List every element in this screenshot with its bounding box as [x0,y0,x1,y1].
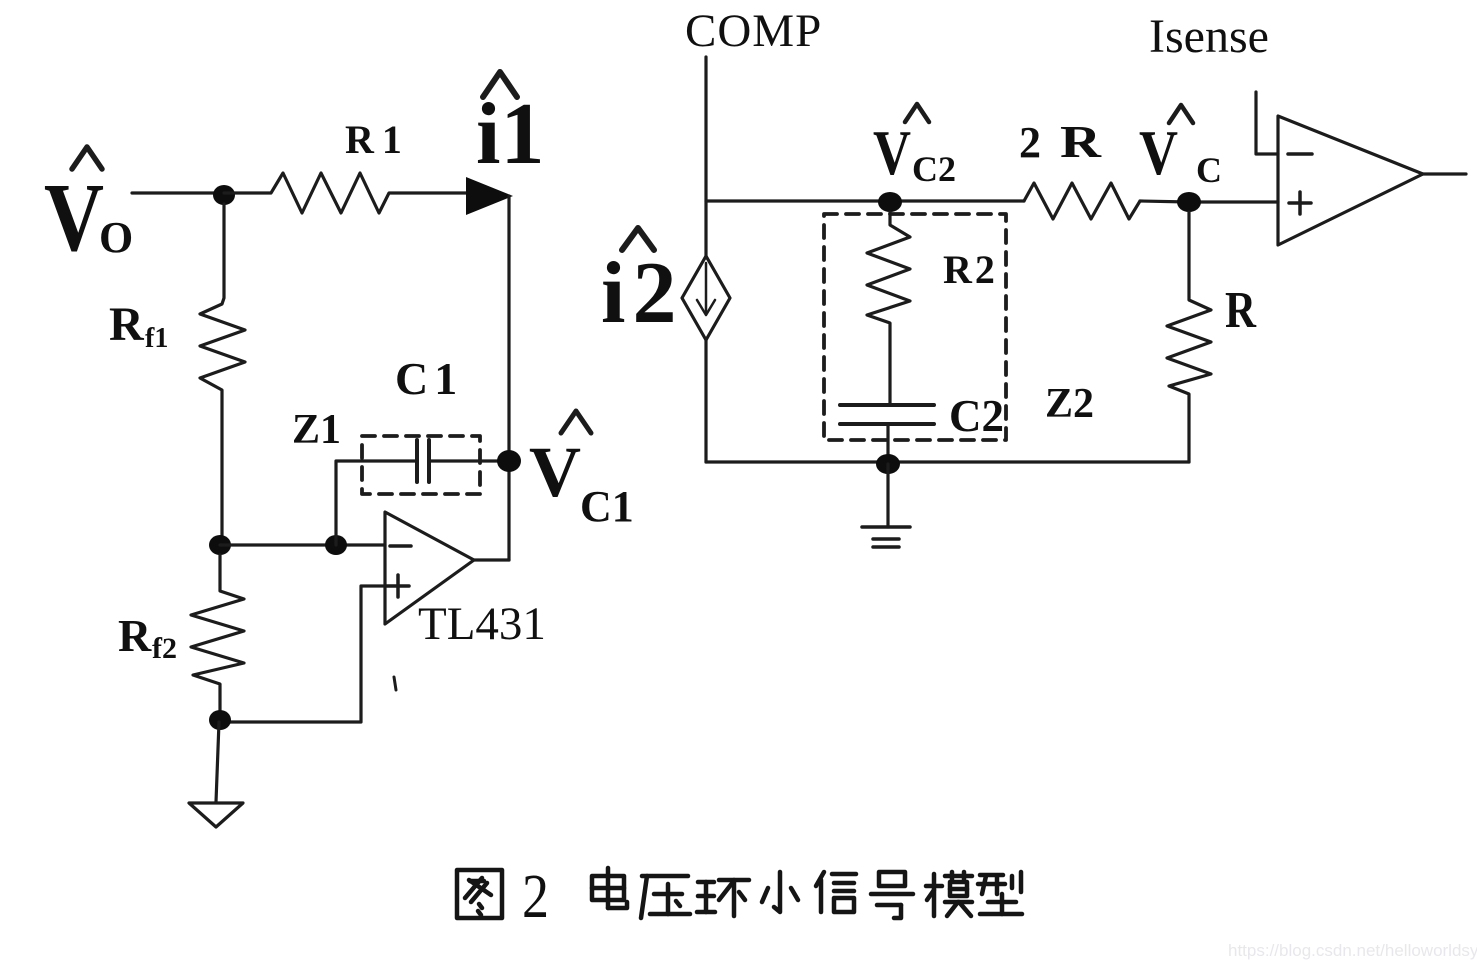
op-amp U1 TL431 [385,512,474,624]
dashed box Z1 [362,436,480,494]
wire U2 output [1423,172,1466,175]
svg-text:i2: i2 [601,245,683,342]
svg-text:Z1: Z1 [292,407,341,453]
node D junction dot [209,710,231,730]
capacitor C2 [840,405,934,424]
wire Vc to opamp [1189,200,1278,203]
label Vc1 [529,432,634,531]
svg-text:i1: i1 [476,86,544,183]
dashed box Z2 [824,214,1006,440]
svg-text:V: V [44,164,104,272]
wire bottom rail [706,460,1189,463]
current source i2 (diamond) [682,256,730,340]
svg-text:https://blog.csdn.net/hellowor: https://blog.csdn.net/helloworldsyf [1228,941,1477,960]
wire Isense input [1256,92,1278,154]
minus sign U2 [1288,152,1312,156]
arrow inside i2 [697,263,715,315]
caption 图 2 电压环小信号模型 [457,863,1022,931]
node Vc junction dot [1177,192,1201,212]
char xiao [762,872,798,912]
wire Vo to node [132,191,224,194]
node E junction dot [876,454,900,474]
svg-text:C2: C2 [949,391,1004,441]
node C junction dot [325,535,347,555]
wire node B to opamp input [220,543,385,546]
wire plus input loop [220,586,385,722]
svg-text:R: R [1060,116,1102,167]
wire opamp output [474,558,509,561]
wire Z1 branch up [336,461,417,545]
node Vo label [44,164,133,272]
resistor R2 [867,212,910,404]
svg-text:C: C [1196,150,1222,190]
svg-text:2: 2 [522,863,549,931]
svg-text:f1: f1 [145,323,168,354]
char tu [457,870,502,918]
node Vc2 junction dot [878,192,902,212]
label i1 [476,86,544,183]
svg-text:COMP: COMP [685,5,822,57]
label Vc [1139,117,1222,190]
resistor Rf1 [200,204,245,545]
svg-text:TL431: TL431 [418,598,546,650]
wire C2 to rail [886,424,889,462]
ground (triangle) [189,803,243,827]
svg-text:Isense: Isense [1149,10,1269,63]
op-amp U2 [1278,116,1423,245]
wire to ground [216,722,219,802]
hat over Vo [72,147,102,169]
wire vertical i1 branch [507,196,510,560]
wire COMP down [704,57,707,258]
wire to ground 2 [886,464,889,527]
svg-text:2: 2 [1019,118,1041,167]
stray mark [394,677,396,690]
minus sign U1 [390,544,411,548]
resistor R1 [224,173,468,213]
node A junction dot [213,185,235,205]
char huan [697,880,749,916]
current arrow i1 [466,177,513,215]
char dian [592,868,627,908]
capacitor C1 [417,440,429,482]
node B junction dot [209,535,231,555]
svg-text:C2: C2 [912,149,956,189]
resistor R [1167,212,1211,462]
hat over Vc1 [561,411,591,433]
plus sign U2 [1289,192,1311,214]
svg-text:V: V [529,432,581,512]
label Vc2 [873,117,956,189]
svg-text:V: V [873,117,911,188]
wire i2 down to bottom rail [704,340,707,462]
wire C1 right [429,459,509,462]
svg-text:C1: C1 [580,482,634,531]
svg-text:R1: R1 [345,117,410,162]
wire 2R to Vc [1140,201,1189,202]
svg-text:O: O [99,213,133,262]
wire Vc2 to 2R [890,199,1024,202]
label Rf1 [109,298,168,354]
wire COMP to Vc2 [706,199,890,202]
hat over i2 [622,228,654,250]
label Rf2 [118,610,177,665]
svg-text:Z2: Z2 [1045,381,1094,427]
node Vc1 junction dot [497,450,521,472]
svg-text:V: V [1139,117,1178,188]
hat over Vc2 [905,104,929,122]
char hao [871,872,913,918]
svg-text:R: R [118,610,152,661]
resistor 2R [1024,183,1140,219]
svg-text:R: R [109,298,145,351]
svg-text:R2: R2 [943,247,998,292]
hat over Vc [1169,105,1193,123]
char ya [641,876,690,918]
char mo [926,872,972,916]
svg-text:f2: f2 [152,632,177,665]
char xin [816,872,856,912]
svg-text:R: R [1225,282,1257,339]
svg-text:C1: C1 [395,353,463,404]
ground 2 [862,527,910,547]
plus sign U1 [387,575,409,597]
char xing [978,872,1022,914]
resistor Rf2 [191,555,244,718]
hat over i1 [483,72,517,97]
